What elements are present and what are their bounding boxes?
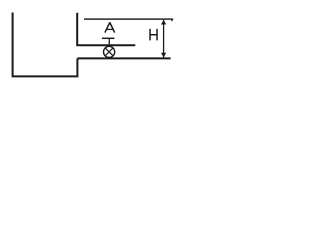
H dimension arrow stem [163, 20, 165, 57]
H dimension arrowhead down [161, 53, 166, 58]
valve A: X cross [105, 48, 113, 56]
valve A: circle [104, 46, 115, 57]
valve A: T-handle bar [102, 37, 115, 39]
tank: left wall, bottom, lower-right wall [13, 13, 78, 77]
label A [105, 23, 115, 33]
pipe bottom line [77, 57, 170, 59]
top reference line (free surface level) [84, 18, 173, 20]
label H [150, 29, 157, 41]
valve A: stem [108, 39, 110, 47]
end tick on reference line [171, 19, 173, 21]
background [0, 0, 180, 82]
H dimension arrowhead up [161, 20, 166, 25]
tank upper-right wall + pipe top line [77, 13, 135, 46]
